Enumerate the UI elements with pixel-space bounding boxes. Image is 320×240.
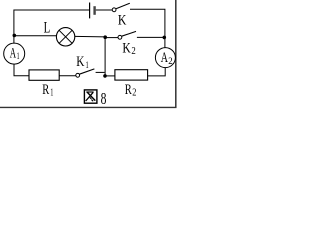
wire middle vertical [104,37,106,76]
resistor R2 [115,70,148,80]
svg-text:8: 8 [101,89,107,108]
wire switch K to top-right corner, down right side to A2 [130,9,165,47]
svg-text:2: 2 [132,87,136,98]
battery cell: short thick plate [93,6,95,15]
ammeter A1 [4,43,25,64]
node: right junction dot [163,36,167,40]
wire K2 right contact to right junction [137,36,165,38]
svg-text:1: 1 [17,52,20,62]
table cell border bottom [0,106,177,108]
wire middle junction to switch K2 [105,37,118,39]
node: top middle junction dot [103,35,107,39]
svg-text:1: 1 [50,87,53,98]
svg-text:R: R [42,82,49,98]
caption: hanzi TU (figure) drawn as strokes [84,90,97,103]
wire left junction to lamp [14,35,57,37]
wire A1 bottom to R1 [14,64,29,76]
wire A2 bottom to R2 [148,68,166,76]
wire battery to switch K [96,9,112,11]
switch K1 fixed contact stub [96,71,105,73]
svg-text:L: L [44,20,51,37]
svg-text:K: K [118,11,127,28]
node: bottom middle junction dot [103,74,107,78]
svg-text:A: A [161,50,168,66]
svg-text:A: A [10,46,16,62]
svg-text:K: K [76,54,85,70]
node: left junction dot [13,34,17,38]
svg-text:2: 2 [168,56,173,66]
lamp L [56,28,74,46]
switch K pivot circle [112,8,116,12]
svg-text:R: R [125,82,132,98]
switch K1 pivot circle [76,73,80,77]
wire R2 left to bottom junction [105,75,115,77]
wire R1 to switch K1 [59,75,76,77]
svg-text:K: K [122,41,131,57]
resistor R1 [29,70,59,80]
battery cell: long plate [89,3,91,19]
switch K1 lever [79,69,94,74]
svg-text:2: 2 [131,46,135,57]
switch K2 lever [122,31,136,36]
switch K lever [116,3,130,9]
switch K2 pivot circle [118,35,122,39]
svg-text:1: 1 [86,60,89,71]
wire lamp to middle junction [75,35,105,38]
wire top-left: battery to left corner and down to A1 [14,10,89,43]
ammeter A2 [155,48,175,68]
table cell border right [175,0,177,108]
